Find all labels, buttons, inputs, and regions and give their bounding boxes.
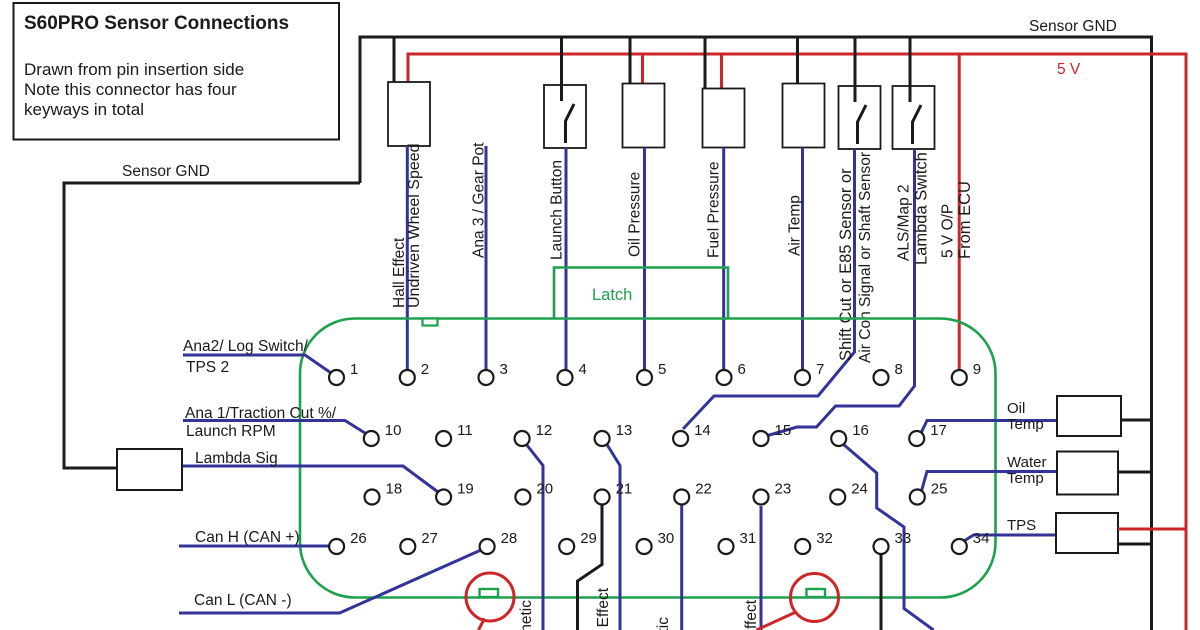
svg-text:Magnetic: Magnetic (518, 600, 535, 630)
switch box: Launch Button (544, 85, 586, 148)
wire: pin 17 to Oil Temp (921, 421, 1057, 434)
svg-text:7: 7 (816, 361, 824, 378)
svg-text:Ana 3 / Gear Pot: Ana 3 / Gear Pot (471, 142, 488, 258)
svg-text:Launch Button: Launch Button (549, 160, 566, 260)
svg-text:Undriven Wheel Speed: Undriven Wheel Speed (406, 143, 423, 308)
switch box: Shift Cut (839, 86, 881, 149)
pin 22 (674, 481, 712, 505)
svg-text:Sensor GND: Sensor GND (1029, 18, 1117, 35)
svg-text:16: 16 (852, 422, 869, 439)
svg-text:5 V: 5 V (1057, 61, 1081, 78)
wire: Ana 3 Gear Pot to pin 3 (485, 146, 488, 370)
wire: GND drop 5 (796, 37, 799, 84)
svg-text:Temp: Temp (1007, 416, 1044, 433)
svg-text:4: 4 (579, 361, 587, 378)
sensor box: Air Temp (783, 84, 825, 148)
title box (14, 3, 340, 140)
pin 33 (874, 530, 912, 554)
wire: Can L to pin 28 (179, 550, 481, 613)
svg-text:6: 6 (738, 361, 746, 378)
wire: Oil Temp GND (1121, 419, 1152, 422)
pin 10 (364, 422, 402, 446)
svg-text:Temp: Temp (1007, 470, 1044, 487)
pin 31 (719, 530, 757, 554)
pin 24 (830, 481, 868, 505)
svg-text:ALS/Map 2: ALS/Map 2 (896, 184, 913, 261)
sensor box: Fuel Pressure (703, 89, 745, 148)
wire: Lambda Sig to pin 19 (183, 466, 438, 492)
pin 25 (910, 481, 948, 505)
wire: Sensor GND top bus (360, 37, 1152, 630)
component: Oil Temp sensor box (1057, 396, 1121, 436)
pin 26 (329, 530, 367, 554)
svg-text:13: 13 (616, 422, 633, 439)
pin 23 (754, 481, 792, 505)
svg-text:15: 15 (775, 422, 792, 439)
svg-text:From ECU: From ECU (956, 181, 974, 259)
pin 32 (795, 530, 833, 554)
wire: GND drop 1 (393, 37, 396, 82)
svg-text:Oil: Oil (1007, 400, 1025, 417)
wire: pin 33 down (black) (880, 555, 883, 630)
pin 13 (595, 422, 633, 446)
wire: 5V bus (408, 54, 1186, 630)
svg-text:5 V O/P: 5 V O/P (940, 204, 957, 258)
svg-text:Fuel Pressure: Fuel Pressure (706, 162, 723, 258)
svg-text:Air Con Signal or Shaft Sensor: Air Con Signal or Shaft Sensor (857, 152, 874, 363)
svg-text:10: 10 (385, 422, 402, 439)
svg-text:Hall Effect: Hall Effect (743, 599, 760, 630)
pin 17 (909, 422, 947, 446)
svg-text:3: 3 (500, 361, 508, 378)
svg-text:1: 1 (350, 361, 358, 378)
pin 15 (754, 422, 792, 446)
wire: 5V O/P drop to pin 9 (958, 54, 961, 370)
wire: pin 22 down (680, 505, 683, 630)
wire: Water Temp GND (1118, 471, 1152, 474)
wire: pin 34 to TPS (964, 535, 1056, 541)
svg-text:Launch RPM: Launch RPM (186, 423, 276, 440)
svg-text:33: 33 (895, 530, 912, 547)
pin 18 (365, 481, 403, 505)
pin 34 (952, 530, 990, 554)
pin 2 (400, 361, 429, 385)
svg-text:24: 24 (851, 481, 868, 498)
svg-text:Air Temp: Air Temp (787, 195, 804, 256)
pin 9 (952, 361, 981, 385)
svg-text:25: 25 (931, 481, 948, 498)
pin 1 (329, 361, 358, 385)
wire: Sensor GND left branch (64, 183, 360, 468)
svg-text:5: 5 (658, 361, 666, 378)
component: TPS sensor box (1056, 513, 1118, 553)
wire: 5V drop 2 (720, 54, 723, 89)
pin 3 (479, 361, 508, 385)
switch box: ALS/Map2 Lambda Switch (893, 86, 935, 149)
connector body outline (300, 319, 996, 598)
wire: pin 12 down (526, 444, 543, 630)
svg-text:28: 28 (501, 530, 518, 547)
pin 7 (795, 361, 824, 385)
svg-text:Oil Pressure: Oil Pressure (627, 172, 644, 257)
svg-text:34: 34 (973, 530, 990, 547)
svg-text:2: 2 (421, 361, 429, 378)
pin 14 (673, 422, 711, 446)
svg-text:Latch: Latch (592, 286, 632, 304)
svg-text:26: 26 (350, 530, 367, 547)
wire: 5V drop 1 (641, 54, 644, 84)
svg-text:18: 18 (386, 481, 403, 498)
wire: GND drop 3 (629, 37, 632, 84)
pin 16 (831, 422, 869, 446)
svg-text:Can L (CAN -): Can L (CAN -) (194, 592, 292, 609)
wire: Launch Button to pin 4 (565, 148, 568, 370)
pin 5 (637, 361, 666, 385)
wire: Air Temp to pin 7 (801, 148, 804, 371)
svg-text:23: 23 (775, 481, 792, 498)
svg-text:Ana2/ Log Switch/: Ana2/ Log Switch/ (183, 338, 309, 355)
svg-text:keyways in total: keyways in total (24, 100, 144, 119)
wire: GND drop 6 (854, 37, 857, 101)
wire: Hall Effect to pin 2 (406, 146, 409, 370)
svg-text:17: 17 (930, 422, 947, 439)
pin 28 (480, 530, 518, 554)
sensor box: Hall Effect wheel speed (388, 82, 430, 146)
pin 21 (595, 481, 633, 505)
svg-text:19: 19 (457, 481, 474, 498)
svg-text:Water: Water (1007, 454, 1046, 471)
keyway circle 2 (757, 574, 839, 630)
svg-text:8: 8 (895, 361, 903, 378)
pin 8 (874, 361, 903, 385)
wire: pin 25 to Water Temp (922, 472, 1058, 492)
keyway circle 1 (466, 573, 514, 630)
wire: pin 13 down (606, 443, 620, 630)
wire: Ana 1/Traction Cut to pin 10 (183, 421, 365, 434)
svg-text:Lambda Sig: Lambda Sig (195, 450, 278, 467)
wire: TPS GND (1118, 543, 1152, 546)
pin 20 (515, 481, 553, 505)
pin 19 (436, 481, 474, 505)
svg-text:29: 29 (580, 530, 597, 547)
wire: TPS 5V (1118, 528, 1186, 531)
svg-text:TPS 2: TPS 2 (186, 359, 229, 376)
sensor box: Oil Pressure (623, 84, 665, 148)
svg-text:11: 11 (457, 422, 473, 439)
svg-text:TPS: TPS (1007, 517, 1036, 534)
svg-text:S60PRO Sensor Connections: S60PRO Sensor Connections (24, 13, 289, 34)
wire: Oil Pressure to pin 5 (643, 148, 646, 371)
svg-text:22: 22 (695, 481, 712, 498)
component: Water Temp sensor box (1057, 452, 1118, 495)
pin 27 (400, 530, 438, 554)
svg-text:14: 14 (694, 422, 711, 439)
svg-text:Can H (CAN +): Can H (CAN +) (195, 529, 300, 546)
pin 4 (558, 361, 587, 385)
svg-text:27: 27 (421, 530, 438, 547)
pin 12 (515, 422, 553, 446)
svg-text:32: 32 (816, 530, 833, 547)
svg-text:Ana 1/Traction Cut %/: Ana 1/Traction Cut %/ (185, 405, 337, 422)
wire: GND drop 7 (909, 37, 912, 101)
svg-text:12: 12 (536, 422, 553, 439)
svg-text:30: 30 (658, 530, 675, 547)
wire: pin 16 down (843, 444, 934, 630)
wire: GND drop 4 (704, 37, 707, 89)
wire: pin 23 down (760, 506, 763, 630)
svg-text:Sensor GND: Sensor GND (122, 163, 210, 180)
wire: GND drop 2 (560, 37, 563, 101)
wire: pin 21 down (black) (578, 505, 603, 630)
wire: Can H to pin 26 (179, 545, 329, 548)
wire: Fuel Pressure to pin 6 (722, 148, 725, 371)
svg-text:31: 31 (740, 530, 757, 547)
wire: Ana2/Log Switch to pin 1 (183, 355, 331, 373)
svg-text:20: 20 (536, 481, 553, 498)
svg-text:Lambda Switch: Lambda Switch (913, 152, 931, 265)
svg-text:Drawn from pin insertion side: Drawn from pin insertion side (24, 60, 244, 79)
svg-text:Magnetic: Magnetic (655, 617, 672, 630)
pin 29 (559, 530, 597, 554)
pin 30 (637, 530, 675, 554)
component: Lambda sensor box (117, 449, 182, 490)
wire: ALS/Map2 to pin 15 (766, 149, 915, 436)
connector top notch (423, 319, 438, 326)
svg-text:21: 21 (616, 481, 633, 498)
svg-text:Note this connector has four: Note this connector has four (24, 80, 237, 99)
wire: Shift Cut to pin 14 (683, 149, 855, 429)
pin 11 (436, 422, 473, 446)
svg-text:Hall Effect: Hall Effect (595, 587, 612, 630)
svg-text:9: 9 (973, 361, 981, 378)
latch (554, 268, 728, 319)
pin 6 (717, 361, 746, 385)
svg-text:Shift Cut or E85 Sensor or: Shift Cut or E85 Sensor or (837, 168, 855, 361)
